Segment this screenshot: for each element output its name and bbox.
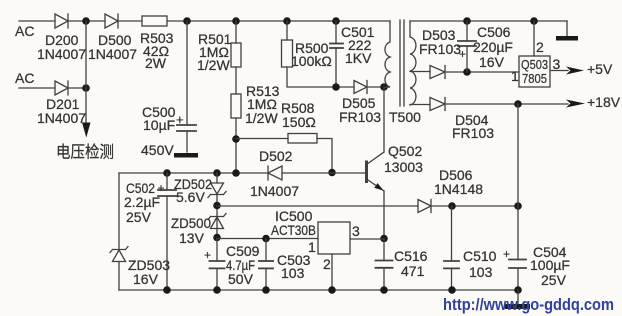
svg-text:FR103: FR103 <box>339 109 381 125</box>
svg-text:2.2µF: 2.2µF <box>124 194 160 210</box>
svg-text:FR103: FR103 <box>452 125 494 141</box>
svg-text:1N4007: 1N4007 <box>88 46 137 62</box>
wire D506 to C504 column <box>431 205 518 207</box>
svg-text:ZD500: ZD500 <box>171 215 211 231</box>
svg-text:25V: 25V <box>126 209 152 225</box>
node C504 branch <box>514 100 522 108</box>
node zener midpoint <box>213 202 221 210</box>
node bottom C516 <box>380 286 388 294</box>
node R501 top <box>232 17 240 25</box>
wire AC line 1 <box>19 20 55 22</box>
svg-text:1: 1 <box>308 239 316 255</box>
arrow voltage detect <box>82 123 91 138</box>
svg-text:+5V: +5V <box>587 61 613 77</box>
svg-text:16V: 16V <box>479 54 505 70</box>
capacitor C500 <box>177 125 196 152</box>
svg-text:Q502: Q502 <box>388 143 422 159</box>
node C503 top <box>262 235 270 243</box>
svg-text:1: 1 <box>511 68 519 84</box>
wire pin1 row <box>217 238 318 240</box>
svg-text:10µF: 10µF <box>143 117 175 133</box>
node bottom C510 <box>448 286 456 294</box>
wire base row right segment <box>282 172 366 174</box>
svg-text:+18V: +18V <box>587 94 621 110</box>
wire emitter down <box>383 191 385 238</box>
zener ZD500 <box>208 214 226 229</box>
ground top right <box>556 36 578 41</box>
node bottom C503 <box>262 286 270 294</box>
resistor R500 <box>282 40 293 67</box>
resistor R513 <box>231 94 241 118</box>
svg-text:C510: C510 <box>463 248 497 264</box>
node bottom C509 <box>213 286 221 294</box>
IC U IC500 box <box>318 222 350 254</box>
svg-text:+: + <box>158 181 165 195</box>
diode D505 <box>354 81 367 94</box>
node C510 top <box>448 202 456 210</box>
wire D200 to D500 <box>68 20 105 22</box>
resistor R503 <box>142 16 167 26</box>
wire D504 to +18V <box>445 103 568 105</box>
svg-text:25V: 25V <box>541 272 567 288</box>
node ZD502 top <box>213 169 221 177</box>
wire bottom rail <box>119 289 518 291</box>
svg-text:471: 471 <box>401 263 425 279</box>
svg-text:103: 103 <box>281 265 305 281</box>
wire secondary tap to D503 <box>410 71 430 73</box>
transformer core <box>399 20 401 106</box>
zener ZD502 <box>208 173 226 238</box>
svg-text:16V: 16V <box>133 271 159 287</box>
wire feedback row to D506 <box>217 205 418 207</box>
diode D504 <box>430 98 445 111</box>
svg-text:D502: D502 <box>259 148 293 164</box>
node bottom pin2 <box>328 286 336 294</box>
svg-text:5.6V: 5.6V <box>176 189 205 205</box>
wire R500 bottom to snubber row <box>287 67 354 87</box>
ground bottom <box>505 290 530 309</box>
svg-text:FR103: FR103 <box>419 41 461 57</box>
wire IC500 pin3 <box>350 238 384 240</box>
diode D500 <box>105 14 118 28</box>
capacitor C516 <box>376 239 393 291</box>
svg-text:2: 2 <box>323 256 331 272</box>
svg-text:7805: 7805 <box>522 71 547 86</box>
arrow +18V <box>566 100 585 108</box>
svg-text:+: + <box>503 247 510 261</box>
svg-text:C516: C516 <box>394 248 428 264</box>
svg-text:450V: 450V <box>141 142 174 158</box>
diode D506 <box>418 200 431 213</box>
svg-text:100µF: 100µF <box>530 257 570 273</box>
node bottom C504 <box>514 286 522 294</box>
wire D503 to Q503 pin1 <box>445 71 519 73</box>
wire C500 vertical <box>186 21 188 125</box>
wire R513 bottom lead <box>235 118 237 173</box>
svg-text:1N4007: 1N4007 <box>250 183 299 199</box>
wire Q503 pin3 to +5V <box>550 70 568 72</box>
ground C500 <box>174 153 198 158</box>
wire secondary bottom to D504 <box>410 104 430 106</box>
svg-text:+: + <box>459 47 466 61</box>
node C501 top <box>332 17 340 25</box>
node Q503 pin2 <box>530 17 538 25</box>
svg-text:13003: 13003 <box>384 159 423 175</box>
wire R500 top lead <box>286 21 288 40</box>
capacitor C502 <box>158 173 176 290</box>
svg-text:2: 2 <box>536 39 544 55</box>
wire Q503 pin2 <box>533 21 535 56</box>
wire to top ground <box>566 21 568 36</box>
wire R501 top lead <box>235 21 237 43</box>
capacitor C504 <box>509 104 526 290</box>
wire IC500 pin2 <box>331 254 333 290</box>
regulator U Q503 box <box>519 56 550 87</box>
node bottom C502 <box>163 286 171 294</box>
wire R501/R513 series <box>235 67 237 94</box>
svg-text:C506: C506 <box>477 24 511 40</box>
svg-text:1/2W: 1/2W <box>197 57 230 73</box>
wire base row left segment <box>119 172 268 174</box>
svg-text:AC: AC <box>15 23 34 39</box>
transformer T500 secondary winding <box>410 21 416 105</box>
node R508/base <box>328 169 336 177</box>
svg-text:50V: 50V <box>228 271 254 287</box>
svg-text:+: + <box>204 248 211 262</box>
node C506 bottom <box>463 68 471 76</box>
svg-text:3: 3 <box>352 223 360 239</box>
svg-text:1/2W: 1/2W <box>245 110 278 126</box>
wire collector <box>383 87 385 152</box>
transistor Q502 <box>367 152 385 191</box>
node C502 top <box>163 169 171 177</box>
diode D200 <box>55 14 68 28</box>
node R508 branch <box>232 135 240 143</box>
capacitor C510 <box>444 206 459 290</box>
svg-text:http://www.go-gddq.com: http://www.go-gddq.com <box>443 296 614 314</box>
node R513 bottom <box>232 169 240 177</box>
svg-text:1N4148: 1N4148 <box>434 181 483 197</box>
node C506 top <box>463 17 471 25</box>
resistor R508 <box>288 134 317 144</box>
resistor R501 <box>231 43 241 67</box>
svg-text:2W: 2W <box>145 55 167 71</box>
wire AC line 2 <box>19 87 55 89</box>
svg-text:150Ω: 150Ω <box>282 114 316 130</box>
node C500 top <box>183 17 191 25</box>
wire C501 vertical <box>335 21 337 43</box>
wire top rail <box>168 20 390 22</box>
transformer T500 primary winding <box>385 21 391 88</box>
capacitor C509 <box>210 239 225 291</box>
svg-text:ACT30B: ACT30B <box>271 222 316 238</box>
node junction D201 <box>82 84 90 92</box>
svg-text:Q503: Q503 <box>521 57 548 72</box>
wire D201 to node <box>68 87 86 89</box>
wire R508 right lead <box>317 139 332 173</box>
svg-text:100kΩ: 100kΩ <box>291 53 332 69</box>
capacitor C503 <box>259 239 273 291</box>
wire to R508 <box>236 138 288 140</box>
node emitter/pin3 <box>380 235 388 243</box>
svg-text:+: + <box>176 112 184 127</box>
capacitor C501 <box>330 44 343 88</box>
wire D500 to R503 <box>118 20 141 22</box>
svg-text:3: 3 <box>553 56 561 72</box>
node R500 top <box>283 17 291 25</box>
wire ZD503 column <box>118 173 120 249</box>
node C501 bottom <box>332 83 340 91</box>
wire voltage detect vertical <box>85 21 87 124</box>
svg-text:1KV: 1KV <box>345 50 372 66</box>
node D506/C504 <box>514 202 522 210</box>
capacitor C506 <box>458 21 476 72</box>
svg-text:103: 103 <box>469 264 493 280</box>
wire secondary top rail <box>410 20 567 22</box>
diode D502 <box>268 166 282 180</box>
svg-text:电压检测: 电压检测 <box>56 143 114 162</box>
svg-text:T500: T500 <box>389 109 421 125</box>
node ZD500 bottom <box>213 234 221 242</box>
svg-text:220µF: 220µF <box>473 39 513 55</box>
svg-text:AC: AC <box>15 70 34 86</box>
node primary/collector <box>380 83 388 91</box>
diode D503 <box>430 66 445 79</box>
svg-text:1N4007: 1N4007 <box>37 46 86 62</box>
diode D201 <box>55 81 68 95</box>
arrow +5V <box>566 67 584 75</box>
svg-text:1N4007: 1N4007 <box>37 110 86 126</box>
zener ZD503 <box>110 247 128 291</box>
svg-text:13V: 13V <box>179 230 205 246</box>
node junction D200/D500/detect <box>82 17 90 25</box>
wire D505 to primary bottom <box>367 86 384 88</box>
